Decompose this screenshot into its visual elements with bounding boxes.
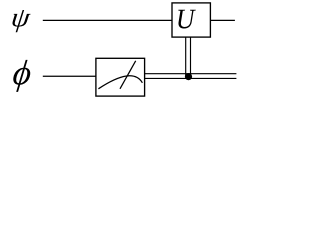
- classical double wire vertical right: [190, 38, 192, 77]
- meter M1 arc: [98, 76, 142, 89]
- node psi (input label): [11, 10, 31, 32]
- meter M1 needle: [120, 61, 136, 89]
- meter M1 box: [96, 58, 145, 96]
- classical double wire horizontal lower: [145, 77, 237, 79]
- classical double wire vertical left: [185, 38, 187, 77]
- node phi (input label): [12, 60, 32, 92]
- control dot: [185, 73, 192, 80]
- wire quantum top-right: [210, 19, 235, 21]
- wire quantum bottom-left: [43, 75, 96, 77]
- wire quantum top-left: [43, 19, 172, 21]
- gate U1 box: [172, 3, 210, 37]
- gate U1 label: [178, 10, 195, 29]
- classical double wire horizontal upper: [145, 73, 237, 75]
